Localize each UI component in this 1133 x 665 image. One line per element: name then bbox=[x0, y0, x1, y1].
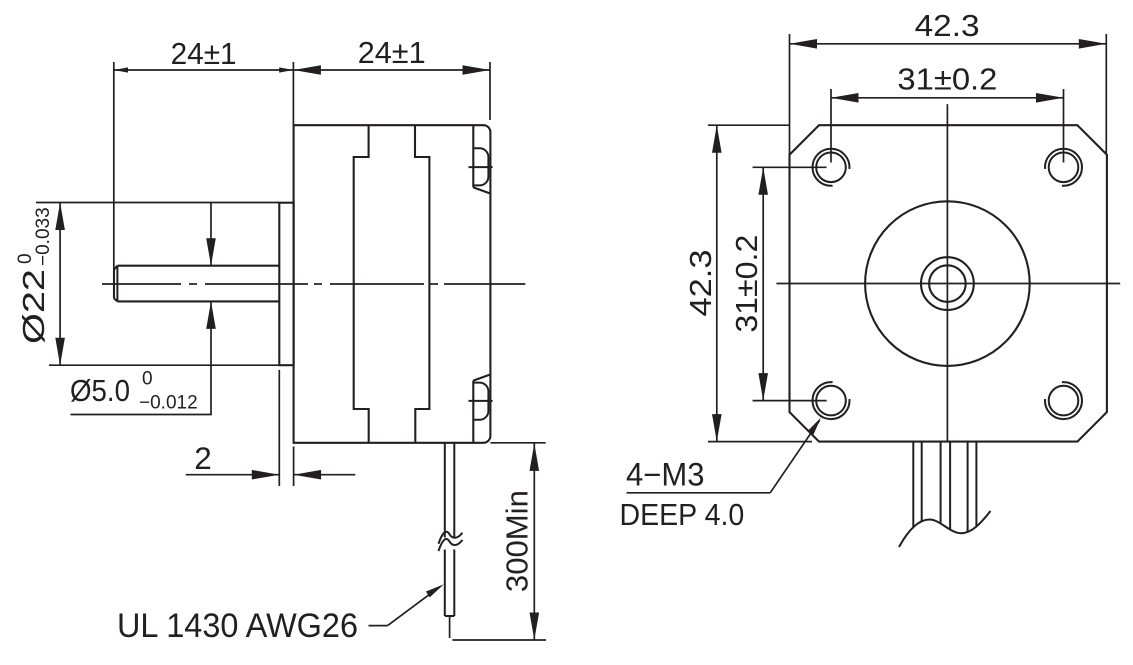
bearing boss circle bbox=[921, 257, 974, 310]
dimension 24±1 body: dim line + arrows bbox=[293, 69, 490, 71]
stator lamination contour right bbox=[415, 125, 429, 443]
cable break wave bbox=[899, 511, 991, 547]
dimension 24±1 shaft: extension lines bbox=[113, 62, 115, 270]
terminal clip top-right bbox=[472, 125, 474, 187]
dimension 42.3 top: dim line + arrows bbox=[790, 43, 1107, 45]
motor body outline (side view) bbox=[294, 125, 491, 443]
vertical centerline front view bbox=[946, 104, 948, 442]
dimension 42.3 left: dim line + arrows bbox=[716, 125, 718, 441]
svg-text:24±1: 24±1 bbox=[171, 36, 237, 71]
dimension 2: extension lines bbox=[278, 370, 280, 486]
svg-text:−0.012: −0.012 bbox=[139, 393, 198, 414]
dimension 31±0.2 top: dim line + arrows bbox=[831, 97, 1064, 99]
dimension 42.3 left: extension lines bbox=[708, 124, 790, 126]
dimension 31±0.2 left: extension lines bbox=[753, 166, 827, 168]
horizontal centerline front view bbox=[776, 283, 1120, 285]
svg-text:0: 0 bbox=[142, 369, 153, 390]
mounting hole bottom-right M3 bbox=[1049, 386, 1079, 416]
Ø5 label underline bbox=[71, 414, 212, 416]
mounting hole top-right M3 bbox=[1049, 153, 1079, 183]
dimension 300Min: dim line + arrows bbox=[533, 443, 535, 640]
mounting hole bottom-left M3 bbox=[816, 386, 846, 416]
dimension 24±1 shaft: dim line + arrows bbox=[114, 69, 294, 71]
label Ø22 0/-0.033 (rotated) bbox=[15, 207, 54, 344]
label 300Min (rotated) bbox=[499, 490, 534, 592]
dimension 42.3 top: extension lines bbox=[789, 34, 791, 155]
dimension 31±0.2 left: dim line + arrows bbox=[762, 167, 764, 400]
svg-text:UL 1430 AWG26: UL 1430 AWG26 bbox=[117, 607, 358, 645]
svg-text:4−M3: 4−M3 bbox=[626, 457, 705, 493]
dimension 2: dim line + arrows bbox=[186, 474, 279, 476]
stator lamination contour left bbox=[354, 125, 369, 443]
svg-text:31±0.2: 31±0.2 bbox=[729, 235, 764, 333]
dimension Ø5: arrow lines bbox=[210, 203, 212, 266]
svg-text:−0.033: −0.033 bbox=[33, 207, 54, 266]
label 42.3 (left, rotated) bbox=[683, 250, 718, 317]
svg-text:42.3: 42.3 bbox=[915, 8, 980, 43]
svg-text:DEEP 4.0: DEEP 4.0 bbox=[620, 497, 745, 532]
shaft circle Ø5 bbox=[929, 265, 966, 302]
terminal clip bottom-right bbox=[472, 381, 474, 443]
svg-text:42.3: 42.3 bbox=[683, 250, 718, 317]
svg-text:31±0.2: 31±0.2 bbox=[897, 62, 997, 97]
svg-text:24±1: 24±1 bbox=[358, 35, 426, 70]
svg-text:Ø5.0: Ø5.0 bbox=[70, 373, 130, 408]
shaft centerline (dash-dot) bbox=[102, 283, 181, 285]
dimension 300Min: extension lines bbox=[490, 442, 545, 444]
mounting hole top-left M3 bbox=[816, 153, 846, 183]
dimension 24±1 body: extension line right bbox=[489, 62, 491, 120]
svg-text:300Min: 300Min bbox=[499, 490, 534, 592]
pilot boss (2mm flange) bbox=[279, 203, 293, 366]
lead wires (side view) bbox=[444, 443, 446, 538]
leader 4-M3 bbox=[627, 492, 771, 494]
dimension Ø22: extension lines bbox=[36, 202, 279, 204]
svg-text:2: 2 bbox=[194, 440, 212, 476]
leader UL 1430 AWG26 bbox=[369, 625, 388, 627]
label 31±0.2 (left, rotated) bbox=[729, 235, 764, 333]
dimension Ø22: dim line + arrows bbox=[59, 203, 61, 366]
cable break symbol (double tilde) bbox=[439, 532, 463, 544]
shaft outline bbox=[117, 265, 279, 267]
pilot boss circle Ø22 bbox=[865, 201, 1030, 366]
front face square with chamfered corners bbox=[790, 125, 1107, 441]
dimension 31±0.2 top: extension lines bbox=[830, 89, 832, 163]
lead wires (front view) bbox=[912, 442, 914, 528]
wire end centerline bbox=[449, 616, 451, 638]
svg-text:Ø22: Ø22 bbox=[16, 269, 51, 344]
